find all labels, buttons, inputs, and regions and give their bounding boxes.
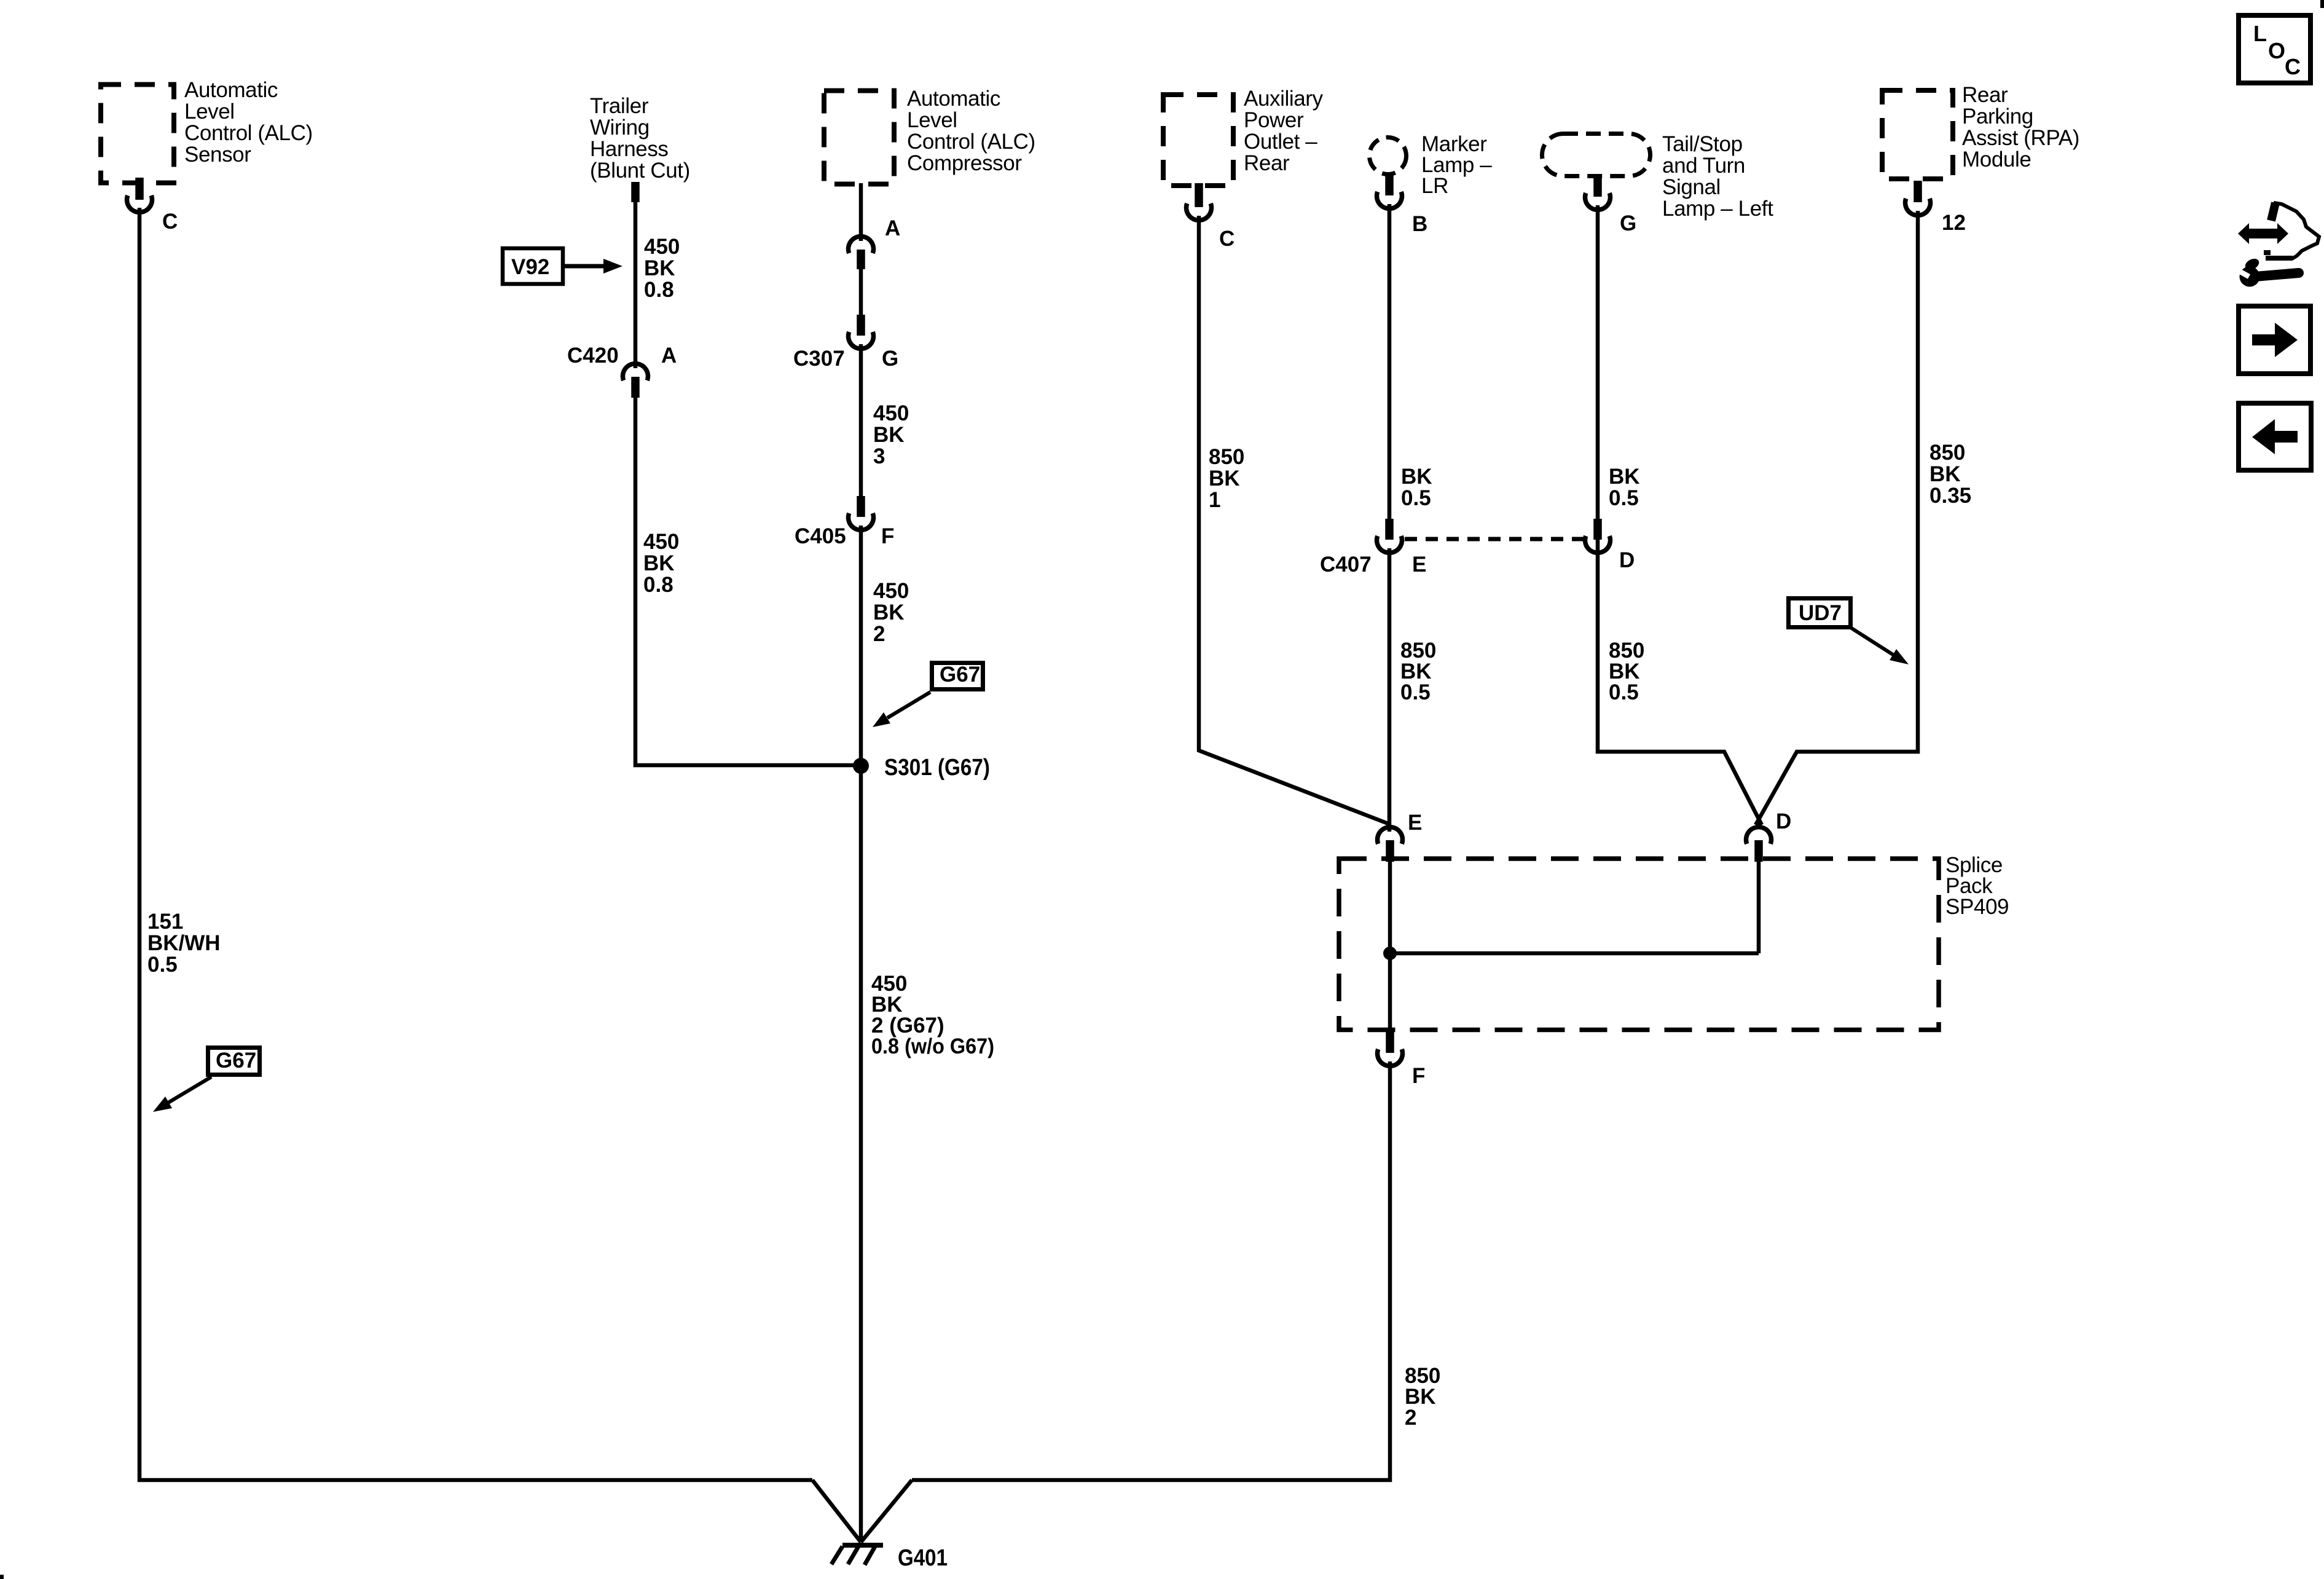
terminal letter G at C307 <box>882 347 898 371</box>
svg-text:BK/WH: BK/WH <box>147 931 221 955</box>
net label box UD7 <box>1789 599 1851 628</box>
wire splice bus horizontal <box>1390 951 1759 956</box>
splice pack SP409 box (dashed) <box>1339 859 1939 1030</box>
wire ground left diagonal <box>812 1480 861 1542</box>
wire ground right diagonal <box>861 1480 912 1542</box>
wire label 450 BK 2 (G67) 0.8 (w/o G67) <box>871 972 994 1058</box>
splice pack connector E (arc and pin) <box>1378 827 1403 862</box>
harness repair icon (double arrow, connector outline, wrench) <box>2237 203 2319 287</box>
connector pin 12 at RPA module (pin and cup) <box>1906 181 1931 215</box>
corner mark top right <box>2320 0 2324 8</box>
connector B at marker lamp (pin and cup) <box>1377 175 1402 208</box>
wire label 850 BK 0.5 (tail lower) <box>1609 639 1644 704</box>
wire A to C307 <box>859 269 863 315</box>
svg-text:Tail/Stop: Tail/Stop <box>1662 132 1743 156</box>
trailer wiring harness label text <box>590 94 690 183</box>
net label text V92 <box>511 255 549 279</box>
svg-text:C: C <box>162 210 178 234</box>
wire label 850 BK 0.5 (marker lower) <box>1400 639 1436 704</box>
wire from sensor C down and along bottom <box>139 208 812 1480</box>
svg-text:BK: BK <box>1929 462 1961 486</box>
terminal letter A at C420 <box>661 344 677 368</box>
previous page icon (boxed left arrow) <box>2239 403 2311 470</box>
arrow from G67 box to left wire <box>153 1077 211 1112</box>
svg-text:BK: BK <box>644 256 675 280</box>
svg-text:Trailer: Trailer <box>590 94 649 118</box>
svg-text:Level: Level <box>184 100 235 124</box>
svg-text:BK: BK <box>1609 465 1640 489</box>
next page icon (boxed right arrow) <box>2239 306 2310 374</box>
splice junction S301 (G67) <box>853 758 869 774</box>
svg-text:Power: Power <box>1244 108 1304 132</box>
connector G at tail/stop lamp (pin and cup) <box>1585 176 1611 210</box>
svg-text:Automatic: Automatic <box>907 87 1000 111</box>
wire C307 to C405 <box>859 344 863 497</box>
corner mark bottom left <box>0 1575 4 1579</box>
svg-text:LR: LR <box>1421 174 1448 198</box>
svg-text:Control (ALC): Control (ALC) <box>184 121 313 145</box>
connector A at ALC compressor (arc and pin) <box>848 237 873 269</box>
ground symbol G401 <box>831 1545 883 1565</box>
RPA module component box (dashed) <box>1882 90 1953 179</box>
ground label G401 <box>898 1545 948 1571</box>
svg-text:S301 (G67): S301 (G67) <box>884 755 990 781</box>
svg-text:C420: C420 <box>567 344 619 368</box>
svg-text:(Blunt Cut): (Blunt Cut) <box>590 159 690 183</box>
terminal number 12 (RPA) <box>1942 211 1966 235</box>
connector C at ALC sensor (cup and pin) <box>127 178 152 212</box>
svg-text:3: 3 <box>873 444 885 468</box>
svg-text:BK: BK <box>1209 467 1240 490</box>
svg-text:O: O <box>2268 38 2285 63</box>
ALC compressor label text <box>907 87 1035 175</box>
svg-text:G: G <box>882 347 898 371</box>
net label text G67 left <box>216 1049 256 1073</box>
net label box G67 (left branch) <box>208 1048 260 1075</box>
svg-text:G: G <box>1620 211 1636 235</box>
terminal letter C (aux outlet) <box>1219 227 1235 251</box>
svg-text:0.5: 0.5 <box>1400 680 1431 704</box>
svg-text:D: D <box>1776 809 1791 833</box>
terminal letter B (marker lamp) <box>1412 212 1427 236</box>
svg-text:Signal: Signal <box>1662 175 1721 199</box>
wire label 450 BK 3 <box>873 401 909 468</box>
svg-text:C: C <box>2285 54 2301 79</box>
wire compressor box to A <box>859 183 863 241</box>
ALC sensor component box (dashed) <box>101 85 174 183</box>
svg-text:G67: G67 <box>940 663 980 687</box>
svg-text:L: L <box>2253 21 2267 46</box>
svg-text:1: 1 <box>1209 488 1220 512</box>
svg-text:Wiring: Wiring <box>590 116 650 140</box>
terminal letter G (tail lamp) <box>1620 211 1636 235</box>
svg-text:0.8: 0.8 <box>644 278 674 302</box>
svg-text:0.5: 0.5 <box>1609 680 1639 704</box>
svg-text:SP409: SP409 <box>1945 895 2009 919</box>
terminal letter E at splice pack <box>1408 811 1422 835</box>
svg-text:Harness: Harness <box>590 137 669 161</box>
wire F down and bottom bus to ground <box>912 1061 1390 1480</box>
LOC reference box icon <box>2239 15 2310 83</box>
svg-text:151: 151 <box>147 910 183 934</box>
RPA module label text <box>1962 83 2079 171</box>
tail/stop lamp label text <box>1662 132 1773 221</box>
auxiliary power outlet label text <box>1244 87 1324 175</box>
arrow from V92 box to wire <box>563 259 622 274</box>
wire label 151 BK/WH 0.5 <box>147 910 221 977</box>
svg-text:Module: Module <box>1962 148 2031 171</box>
svg-text:Compressor: Compressor <box>907 151 1022 175</box>
wire aux outlet down and slant to splice E <box>1199 216 1388 824</box>
svg-text:G67: G67 <box>216 1049 256 1073</box>
wire C405 through S301 to ground <box>859 526 863 1542</box>
in-line connector C405 (pin and cup) <box>848 496 873 530</box>
svg-text:E: E <box>1412 553 1426 577</box>
splice pack label text <box>1945 853 2009 919</box>
svg-text:V92: V92 <box>511 255 549 279</box>
svg-text:A: A <box>661 344 677 368</box>
connector name C420 <box>567 344 619 368</box>
wire label BK 0.5 (marker upper) <box>1401 465 1432 510</box>
svg-text:12: 12 <box>1942 211 1966 235</box>
tail/stop turn signal lamp component outline (dashed stadium) <box>1542 134 1651 176</box>
svg-text:450: 450 <box>643 530 679 554</box>
terminal letter E at C407 <box>1412 553 1426 577</box>
svg-text:0.8: 0.8 <box>643 573 673 597</box>
svg-text:2: 2 <box>1405 1406 1416 1430</box>
svg-text:450: 450 <box>644 235 680 259</box>
in-line connector C407 terminal E (pin and cup) <box>1377 519 1402 553</box>
svg-text:Level: Level <box>907 108 957 132</box>
svg-text:Rear: Rear <box>1962 83 2008 107</box>
splice junction label S301 (G67) <box>884 755 990 781</box>
svg-text:D: D <box>1619 548 1635 572</box>
svg-text:0.5: 0.5 <box>1609 486 1639 510</box>
svg-text:Lamp – Left: Lamp – Left <box>1662 197 1773 221</box>
in-line connector C307 (pin and cup) <box>848 315 873 348</box>
ALC compressor component box (dashed) <box>824 91 894 184</box>
wire label 850 BK 0.35 <box>1929 441 1971 508</box>
svg-text:Outlet –: Outlet – <box>1244 130 1317 154</box>
wire RPA down, elbow and slant to splice D <box>1756 211 1918 825</box>
terminal letter D at splice pack <box>1776 809 1791 833</box>
wire tail lamp down, elbow and slant to splice D <box>1598 205 1762 825</box>
terminal letter D at C407 <box>1619 548 1635 572</box>
svg-text:C: C <box>1219 227 1235 251</box>
ALC sensor label text <box>184 78 313 167</box>
terminal letter C (sensor) <box>162 210 178 234</box>
in-line connector C407 terminal D (pin and cup) <box>1585 519 1611 553</box>
terminal letter F at C405 <box>881 524 894 548</box>
wire label 450 BK 0.8 (above C420) <box>644 235 680 302</box>
wire C420 down to S301 corner <box>635 398 861 765</box>
svg-text:0.35: 0.35 <box>1929 484 1971 508</box>
terminal letter A (compressor) <box>885 216 900 240</box>
wire label BK 0.5 (tail upper) <box>1609 465 1640 510</box>
wire label 450 BK 0.8 (below C420) <box>643 530 679 597</box>
svg-text:850: 850 <box>1209 445 1244 469</box>
connector name C407 <box>1320 553 1372 577</box>
arrow from G67 box to compressor wire <box>873 692 930 727</box>
wire label 850 BK 1 <box>1209 445 1244 512</box>
wire C407 E down into splice E arc <box>1388 548 1392 832</box>
marker lamp component circle (dashed) <box>1370 138 1407 175</box>
connector C at auxiliary power outlet (pin and cup) <box>1186 183 1211 220</box>
net label box V92 <box>503 248 563 284</box>
svg-text:and Turn: and Turn <box>1662 154 1745 178</box>
svg-text:F: F <box>881 524 894 548</box>
svg-text:Rear: Rear <box>1244 151 1290 175</box>
wire splice D pin down to splice bus <box>1757 862 1761 953</box>
svg-text:F: F <box>1412 1064 1425 1088</box>
svg-text:Control (ALC): Control (ALC) <box>907 130 1035 154</box>
wire trailer harness to C420 <box>634 201 638 368</box>
svg-text:E: E <box>1408 811 1422 835</box>
svg-text:Auxiliary: Auxiliary <box>1244 87 1324 111</box>
svg-text:G401: G401 <box>898 1545 948 1571</box>
wire label 450 BK 2 <box>873 579 909 646</box>
svg-text:Parking: Parking <box>1962 104 2033 128</box>
net label text G67 <box>940 663 980 687</box>
svg-text:UD7: UD7 <box>1799 601 1842 625</box>
svg-text:BK: BK <box>1401 465 1432 489</box>
wire splice E pin down through dot to F <box>1388 862 1392 1033</box>
terminal letter F (below splice) <box>1412 1064 1425 1088</box>
trailer harness blunt cut stub <box>631 182 640 202</box>
wire marker lamp to C407 E <box>1388 204 1392 519</box>
svg-text:BK: BK <box>873 423 905 447</box>
arrow from UD7 box to RPA wire <box>1851 628 1909 664</box>
svg-text:850: 850 <box>1929 441 1965 465</box>
svg-text:Assist (RPA): Assist (RPA) <box>1962 126 2079 150</box>
svg-text:C407: C407 <box>1320 553 1372 577</box>
svg-text:Automatic: Automatic <box>184 78 278 102</box>
svg-text:450: 450 <box>873 401 909 425</box>
svg-text:BK: BK <box>643 551 675 575</box>
svg-text:A: A <box>885 216 900 240</box>
net label text UD7 <box>1799 601 1842 625</box>
svg-text:450: 450 <box>873 579 909 603</box>
svg-text:BK: BK <box>873 600 905 624</box>
splice pack connector D (arc and pin) <box>1746 827 1772 862</box>
splice pack internal junction dot <box>1383 947 1397 960</box>
wire label 850 BK 2 <box>1405 1364 1440 1430</box>
svg-text:2: 2 <box>873 622 885 646</box>
connector F below splice pack (pin and cup) <box>1378 1032 1403 1066</box>
wire tip of V into splice D notch <box>1756 821 1761 829</box>
connector name C307 <box>793 347 845 371</box>
svg-text:0.5: 0.5 <box>1401 486 1431 510</box>
dashed link between connector E and D <box>1405 537 1584 541</box>
svg-text:C405: C405 <box>795 524 846 548</box>
connector name C405 <box>795 524 846 548</box>
svg-text:0.8 (w/o G67): 0.8 (w/o G67) <box>871 1034 994 1058</box>
svg-text:0.5: 0.5 <box>147 953 178 977</box>
auxiliary power outlet component box (dashed) <box>1163 95 1233 186</box>
in-line connector C420 (arc and pin) <box>623 364 648 398</box>
marker lamp label text <box>1421 132 1492 198</box>
svg-text:C307: C307 <box>793 347 845 371</box>
svg-text:B: B <box>1412 212 1427 236</box>
net label box G67 (compressor branch) <box>932 663 983 690</box>
svg-text:Sensor: Sensor <box>184 143 251 167</box>
